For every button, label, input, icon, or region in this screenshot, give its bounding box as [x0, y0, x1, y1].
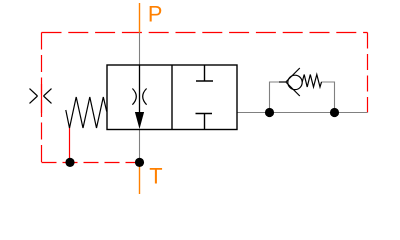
- node junction dot T: [135, 158, 144, 167]
- check valve CV1: spring: [302, 75, 321, 88]
- check valve CV1: seat: [286, 68, 300, 96]
- spring S1 (valve return spring): [66, 97, 107, 128]
- valve V1 body: two-position boxes: [107, 65, 237, 130]
- wire: pilot boundary top dashed red: [42, 32, 368, 34]
- wire: valve output gray: [237, 112, 368, 114]
- check valve CV1: ball: [288, 75, 302, 89]
- node junction dot output right: [330, 108, 339, 117]
- orifice/coupling symbol on pilot line: [30, 89, 52, 104]
- node P line orange top: [139, 3, 141, 33]
- svg-text:P: P: [148, 2, 163, 27]
- valve V1 left position: flow arrow: [135, 112, 144, 129]
- wire: valve to T node gray: [139, 130, 141, 163]
- wire: pilot boundary left dashed red: [41, 33, 43, 163]
- wire: pilot boundary right dashed red: [367, 33, 369, 113]
- wire: P to valve gray: [139, 33, 141, 66]
- wire: drain dashed red bottom: [42, 162, 140, 164]
- wire: right branch up to check valve: [321, 82, 335, 113]
- check valve CV1: inlet stub: [279, 81, 286, 83]
- valve V1 right position: blocked port top: [196, 66, 213, 82]
- valve V1 right position: blocked port bottom: [196, 114, 213, 130]
- node junction dot left drain: [65, 158, 74, 167]
- wire: spring drain solid red: [69, 128, 71, 163]
- svg-text:T: T: [149, 163, 162, 188]
- wire: solid red segment at coupling: [41, 84, 43, 113]
- valve V1 left position: flow line: [139, 65, 141, 113]
- node T line orange bottom: [139, 163, 141, 195]
- valve V1 left position: restriction arcs: [132, 89, 136, 105]
- node junction dot output left: [265, 108, 274, 117]
- wire: left branch up to check valve: [270, 82, 280, 113]
